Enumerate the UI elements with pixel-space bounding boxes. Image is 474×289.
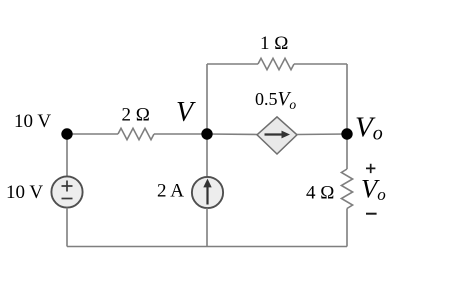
wire 2-ohm resistor to node V [154, 133, 207, 135]
wire node V down to 2A source [206, 134, 208, 177]
wire 10V source to bottom rail [66, 208, 68, 247]
resistor 1 ohm (top) [258, 58, 294, 69]
label node voltage 10 V (top left) [14, 111, 51, 132]
wire node V to dependent source [207, 133, 257, 136]
label plus polarity of Vo [366, 164, 375, 173]
wire node Vo down to 4-ohm resistor [346, 134, 348, 169]
wire middle left lead to 2-ohm resistor [67, 133, 118, 135]
svg-text:2 A: 2 A [157, 180, 184, 201]
node Vo (right node dot) [341, 128, 352, 139]
resistor 4 ohm (right, vertical) [341, 169, 352, 209]
wire bottom rail [67, 246, 347, 248]
node V (center node dot) [201, 128, 212, 139]
svg-text:1 Ω: 1 Ω [260, 33, 288, 54]
wire top-left vertical (node V up to top rail) [206, 64, 208, 134]
label 0.5Vo value [255, 89, 296, 112]
dependent current source 0.5Vo (diamond) [257, 117, 297, 154]
label 2 A source value [157, 180, 184, 201]
label 2 ohm value [122, 104, 150, 125]
current source 2 A (circle with up arrow) [192, 177, 223, 208]
svg-text:2 Ω: 2 Ω [122, 104, 150, 125]
node 10V (left node dot) [61, 128, 72, 139]
label 1 ohm value [260, 33, 288, 54]
wire 2A source to bottom rail [206, 208, 208, 246]
label node Vo [355, 112, 383, 145]
svg-text:V: V [176, 97, 196, 128]
wire right vertical from top rail down to node Vo [346, 64, 348, 134]
resistor 2 ohm (middle) [118, 128, 154, 139]
label minus polarity of Vo [366, 213, 377, 215]
label 4 ohm value [306, 183, 334, 204]
svg-text:4 Ω: 4 Ω [306, 183, 334, 204]
voltage source 10 V (circle with plus minus) [51, 176, 82, 207]
wire dependent source to node Vo [297, 133, 347, 136]
svg-text:10 V: 10 V [14, 111, 51, 132]
label node V [176, 97, 196, 128]
svg-text:10 V: 10 V [6, 182, 43, 203]
wire top rail right of 1-ohm resistor [294, 63, 347, 65]
wire top rail left lead to 1-ohm resistor [207, 63, 258, 65]
wire left vertical node to 10V source [66, 134, 68, 177]
label output voltage Vo across 4 ohm [361, 173, 386, 204]
label 10 V source value [6, 182, 43, 203]
wire 4-ohm resistor to bottom rail [346, 209, 348, 247]
